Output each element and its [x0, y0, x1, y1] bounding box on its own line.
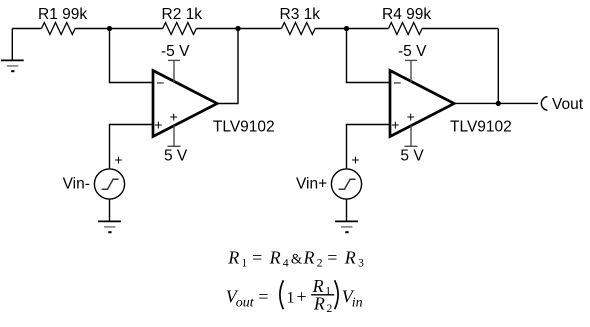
svg-text:2: 2 [317, 258, 323, 270]
resistor R1 [38, 6, 87, 35]
wire feedback vertical to output [497, 29, 499, 104]
wire R3 to R4 [315, 28, 388, 30]
node output junction dot [496, 101, 501, 106]
svg-text:2: 2 [327, 303, 333, 315]
svg-text:3: 3 [358, 258, 364, 270]
wire ground drop left [11, 29, 13, 61]
svg-text:−: − [393, 75, 401, 91]
svg-text:+: + [170, 109, 178, 125]
svg-text:+: + [297, 287, 307, 307]
svg-text:=: = [258, 287, 268, 307]
svg-text:TLV9102: TLV9102 [450, 119, 512, 136]
node C junction dot [344, 26, 349, 31]
svg-text:Vin-: Vin- [63, 175, 90, 192]
svg-text:+: + [391, 116, 399, 132]
node A junction dot [107, 26, 112, 31]
svg-text:TLV9102: TLV9102 [213, 119, 275, 136]
svg-text:R1 99k: R1 99k [38, 6, 87, 23]
svg-text:+: + [351, 151, 359, 167]
wire node C to inverting input U2 [347, 29, 391, 83]
wire Vin- to ground [109, 200, 111, 222]
formula line 1: R1 = R4 & R2 = R3 [227, 247, 364, 269]
svg-text:-5 V: -5 V [161, 43, 190, 60]
ground G3 [335, 221, 358, 232]
node B junction dot [235, 26, 240, 31]
svg-text:5 V: 5 V [164, 148, 188, 165]
wire R4 to feedback corner [422, 28, 498, 30]
wire top rail left segment [12, 28, 41, 30]
svg-text:1: 1 [242, 258, 248, 270]
svg-text:&: & [291, 251, 303, 267]
svg-text:out: out [236, 296, 255, 311]
svg-text:4: 4 [283, 258, 289, 270]
ground G1 [1, 60, 24, 71]
svg-text:5 V: 5 V [400, 148, 424, 165]
op-amp U1 [153, 71, 275, 137]
ground G2 [98, 221, 121, 232]
resistor R4 [382, 6, 431, 35]
power pin V+ U2 [400, 126, 424, 165]
wire Vin- to non-inverting input U1 [110, 125, 154, 169]
svg-text:+: + [154, 116, 162, 132]
svg-text:−: − [156, 75, 164, 91]
wire Vin+ to non-inverting input U2 [347, 125, 391, 169]
svg-text:1: 1 [287, 290, 295, 307]
svg-text:R2 1k: R2 1k [162, 6, 203, 23]
wire U2 output to Vout terminal [454, 102, 538, 104]
formula line 2: Vout = (1 + R1/R2)Vin [226, 276, 363, 315]
power pin V+ U1 [164, 126, 188, 165]
svg-text:=: = [327, 247, 337, 267]
source Vin- [63, 151, 125, 199]
power pin V- U2 [398, 43, 427, 82]
wire node A to inverting input U1 [110, 29, 154, 83]
svg-text:R: R [344, 247, 356, 267]
wire R1 to R2 [75, 28, 163, 30]
svg-text:1: 1 [325, 286, 331, 298]
wire Vin+ to ground [346, 200, 348, 222]
resistor R2 [162, 6, 203, 35]
svg-text:=: = [252, 247, 262, 267]
svg-text:+: + [407, 109, 415, 125]
svg-text:Vout: Vout [552, 96, 584, 113]
svg-text:R4 99k: R4 99k [382, 6, 431, 23]
terminal Vout [541, 96, 583, 113]
wire U1 output to node B [217, 29, 238, 104]
svg-text:Vin+: Vin+ [296, 175, 327, 192]
svg-text:R: R [313, 293, 325, 313]
svg-text:in: in [352, 296, 363, 311]
power pin V- U1 [161, 43, 190, 82]
svg-text:+: + [114, 151, 122, 167]
source Vin+ [296, 151, 362, 199]
op-amp U2 [390, 71, 512, 137]
svg-text:R: R [269, 247, 281, 267]
svg-text:-5 V: -5 V [398, 43, 427, 60]
svg-text:R: R [227, 247, 239, 267]
wire R2 to R3 [196, 28, 281, 30]
svg-text:R3 1k: R3 1k [280, 6, 321, 23]
resistor R3 [280, 6, 321, 35]
svg-text:R: R [303, 247, 315, 267]
